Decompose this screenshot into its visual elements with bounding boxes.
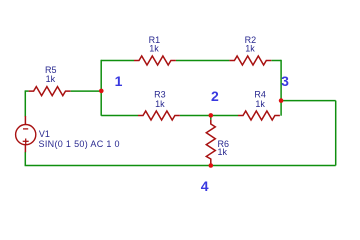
wire node 1 vertical bbox=[100, 60, 102, 116]
junction node 4 dot bbox=[209, 163, 214, 168]
junction node 3 dot bbox=[279, 98, 284, 103]
wire R5 branch right segment to node 1 bbox=[71, 90, 102, 92]
wire node 3 horizontal to right rail bbox=[281, 100, 336, 102]
svg-text:2: 2 bbox=[211, 88, 219, 104]
resistor R1 bbox=[134, 56, 176, 65]
junction node 1 dot bbox=[99, 89, 104, 94]
svg-text:1k: 1k bbox=[218, 147, 228, 157]
wire top branch between R1 and R2 bbox=[176, 60, 229, 62]
svg-text:1k: 1k bbox=[155, 99, 165, 109]
svg-text:1k: 1k bbox=[255, 99, 265, 109]
voltage source V1 bottom lead bbox=[24, 145, 26, 153]
resistor R3 bbox=[138, 111, 180, 120]
wire top branch left of R1 bbox=[101, 60, 134, 62]
wire R6 top stub bbox=[210, 116, 212, 120]
svg-text:1k: 1k bbox=[149, 43, 159, 53]
wire right rail vertical bbox=[335, 101, 337, 166]
voltage source V1 plus sign vertical bbox=[25, 139, 27, 145]
voltage source V1 minus sign bbox=[23, 128, 28, 130]
svg-text:1k: 1k bbox=[46, 74, 56, 84]
resistor R4 bbox=[238, 111, 280, 120]
svg-text:SIN(0 1 50) AC 1 0: SIN(0 1 50) AC 1 0 bbox=[39, 139, 120, 149]
svg-text:V1: V1 bbox=[39, 129, 50, 139]
svg-text:4: 4 bbox=[201, 178, 209, 194]
svg-text:3: 3 bbox=[281, 73, 289, 89]
wire top-right vertical through node 3 bbox=[280, 60, 282, 116]
wire middle branch left of R3 bbox=[101, 115, 138, 117]
wire middle branch between R3 and R4 bbox=[180, 115, 238, 117]
wire bottom net 4 horizontal bbox=[25, 165, 336, 167]
wire R5 branch left stub bbox=[25, 90, 28, 92]
wire left rail from V1 bottom lead to bottom-left corner bbox=[24, 152, 26, 166]
resistor R6 (vertical) bbox=[206, 120, 215, 164]
voltage source V1 plus sign horizontal bbox=[23, 140, 29, 142]
svg-text:R3: R3 bbox=[154, 89, 166, 99]
junction node 2 dot bbox=[209, 113, 214, 118]
voltage source V1 top lead bbox=[24, 116, 26, 125]
voltage source V1 circle bbox=[16, 125, 36, 145]
wire left rail from R5 corner down to V1 top lead bbox=[24, 90, 26, 116]
resistor R5 bbox=[29, 87, 71, 96]
resistor R2 bbox=[229, 56, 271, 65]
svg-text:1: 1 bbox=[115, 73, 123, 89]
wire top branch right of R2 bbox=[271, 60, 281, 62]
svg-text:1k: 1k bbox=[245, 43, 255, 53]
